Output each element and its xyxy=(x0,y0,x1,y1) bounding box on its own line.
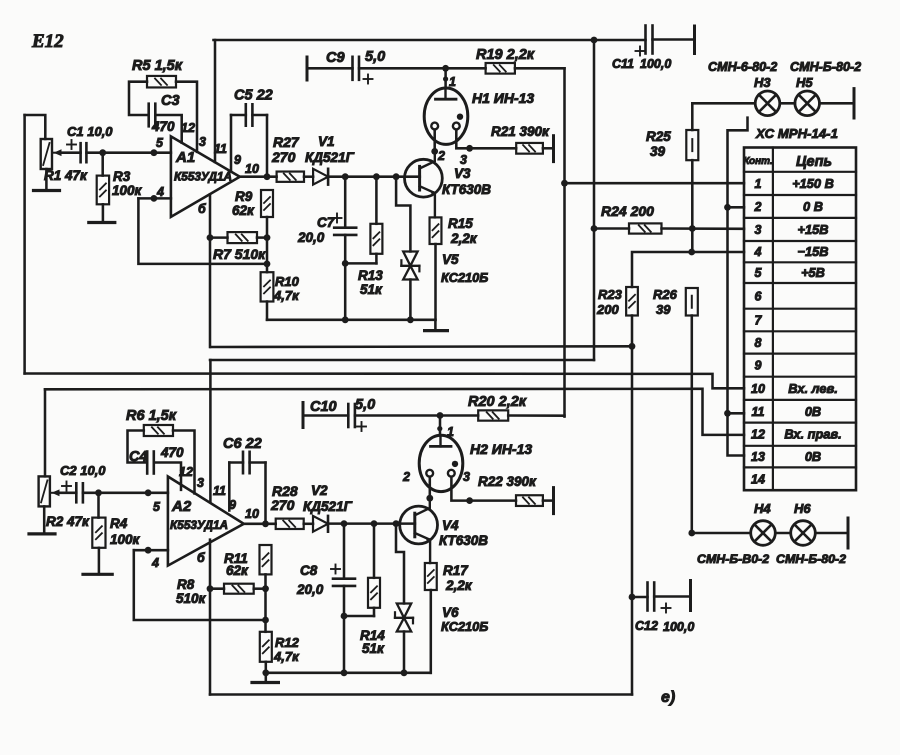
svg-text:470: 470 xyxy=(151,119,175,134)
svg-text:14: 14 xyxy=(751,472,765,486)
svg-text:20,0: 20,0 xyxy=(297,230,325,245)
svg-text:9: 9 xyxy=(755,359,762,373)
svg-text:100,0: 100,0 xyxy=(663,620,694,634)
svg-text:3: 3 xyxy=(460,153,467,167)
svg-text:СМН-Б-80-2: СМН-Б-80-2 xyxy=(776,552,846,566)
svg-text:V4: V4 xyxy=(442,518,459,533)
svg-text:R25: R25 xyxy=(646,129,671,144)
svg-text:С4: С4 xyxy=(129,449,148,465)
svg-text:V1: V1 xyxy=(318,134,335,149)
svg-text:С8: С8 xyxy=(300,563,318,578)
svg-text:К553УД1А: К553УД1А xyxy=(170,518,228,532)
svg-text:б: б xyxy=(197,551,206,565)
svg-text:R4: R4 xyxy=(110,516,128,531)
svg-text:62к: 62к xyxy=(232,203,255,218)
svg-text:51к: 51к xyxy=(362,641,385,656)
svg-text:0 В: 0 В xyxy=(803,199,823,214)
svg-text:R8: R8 xyxy=(177,577,195,592)
svg-text:R1 47к: R1 47к xyxy=(44,168,88,183)
svg-text:2: 2 xyxy=(437,149,445,163)
svg-text:Н1 ИН-13: Н1 ИН-13 xyxy=(472,90,534,106)
svg-text:R10: R10 xyxy=(275,274,300,289)
svg-text:Н2 ИН-13: Н2 ИН-13 xyxy=(470,441,532,457)
svg-text:Вх. прав.: Вх. прав. xyxy=(784,427,841,442)
svg-text:Н6: Н6 xyxy=(794,501,811,516)
svg-text:0В: 0В xyxy=(805,404,821,419)
svg-text:3: 3 xyxy=(197,476,204,490)
svg-text:С5 22: С5 22 xyxy=(234,88,273,104)
svg-text:4,7к: 4,7к xyxy=(273,288,300,303)
svg-text:100к: 100к xyxy=(112,183,143,198)
svg-text:100к: 100к xyxy=(110,532,141,547)
svg-text:Н3: Н3 xyxy=(754,75,771,90)
svg-text:4: 4 xyxy=(151,556,159,570)
svg-text:R5 1,5к: R5 1,5к xyxy=(132,58,183,74)
svg-text:7: 7 xyxy=(755,314,763,328)
svg-text:е): е) xyxy=(661,689,675,706)
svg-text:КС210Б: КС210Б xyxy=(441,270,488,285)
svg-text:R12: R12 xyxy=(275,635,300,650)
svg-text:1: 1 xyxy=(755,177,762,191)
svg-text:R15: R15 xyxy=(448,216,473,231)
svg-text:R13: R13 xyxy=(358,268,383,283)
svg-text:R27: R27 xyxy=(273,134,300,150)
svg-text:V6: V6 xyxy=(442,605,459,620)
svg-text:10: 10 xyxy=(751,382,765,396)
svg-text:510к: 510к xyxy=(176,591,207,606)
svg-text:Н4: Н4 xyxy=(754,501,771,516)
svg-text:б: б xyxy=(198,202,207,216)
svg-text:12: 12 xyxy=(181,121,195,135)
svg-text:3: 3 xyxy=(463,470,470,484)
svg-text:СМН-Б-В0-2: СМН-Б-В0-2 xyxy=(697,552,769,566)
svg-text:5: 5 xyxy=(156,136,164,150)
svg-text:С6 22: С6 22 xyxy=(223,436,262,452)
svg-text:R2 47к: R2 47к xyxy=(46,514,90,529)
svg-text:4,7к: 4,7к xyxy=(273,649,300,664)
svg-text:R6 1,5к: R6 1,5к xyxy=(126,408,177,424)
svg-text:Вх. лев.: Вх. лев. xyxy=(788,381,838,396)
svg-text:5: 5 xyxy=(755,266,763,280)
svg-text:R3: R3 xyxy=(113,169,131,184)
svg-text:9: 9 xyxy=(229,498,236,512)
svg-text:Конт.: Конт. xyxy=(743,156,772,167)
svg-text:КД521Г: КД521Г xyxy=(303,499,353,514)
svg-text:2: 2 xyxy=(754,200,762,214)
svg-text:С9: С9 xyxy=(326,50,345,66)
svg-text:R22 390к: R22 390к xyxy=(478,474,537,489)
svg-text:11: 11 xyxy=(752,405,765,419)
svg-text:С1 10,0: С1 10,0 xyxy=(67,124,113,139)
svg-text:СМН-Б-80-2: СМН-Б-80-2 xyxy=(790,60,861,74)
svg-text:4: 4 xyxy=(156,185,164,199)
svg-text:10: 10 xyxy=(245,162,259,176)
svg-text:4: 4 xyxy=(754,245,762,259)
svg-text:КС210Б: КС210Б xyxy=(441,619,488,634)
svg-text:R17: R17 xyxy=(443,563,469,578)
svg-text:2,2к: 2,2к xyxy=(450,231,478,246)
svg-text:8: 8 xyxy=(755,336,762,350)
svg-text:1: 1 xyxy=(447,425,454,439)
svg-text:1: 1 xyxy=(449,75,456,89)
svg-text:270: 270 xyxy=(270,497,295,513)
svg-text:С2 10,0: С2 10,0 xyxy=(60,463,106,478)
svg-text:13: 13 xyxy=(751,450,765,464)
svg-text:С7: С7 xyxy=(317,215,336,230)
svg-text:11: 11 xyxy=(213,484,226,498)
svg-text:СМН-6-80-2: СМН-6-80-2 xyxy=(708,60,777,74)
svg-text:R21 390к: R21 390к xyxy=(491,124,550,139)
svg-text:ХС МРН-14-1: ХС МРН-14-1 xyxy=(755,126,838,141)
svg-text:11: 11 xyxy=(214,142,227,156)
svg-text:200: 200 xyxy=(596,302,619,317)
svg-text:С10: С10 xyxy=(310,399,337,415)
svg-text:Цепь: Цепь xyxy=(796,154,832,170)
svg-text:+5В: +5В xyxy=(801,265,825,280)
svg-text:5: 5 xyxy=(153,500,161,514)
svg-text:R19 2,2к: R19 2,2к xyxy=(476,47,535,63)
svg-text:12: 12 xyxy=(179,465,193,479)
svg-text:62к: 62к xyxy=(226,563,249,578)
svg-text:3: 3 xyxy=(199,135,206,149)
svg-text:R23: R23 xyxy=(598,287,623,302)
svg-text:39: 39 xyxy=(650,144,666,159)
svg-text:КД521Г: КД521Г xyxy=(305,150,355,165)
svg-text:КТ630В: КТ630В xyxy=(439,533,488,548)
svg-text:V5: V5 xyxy=(442,252,459,267)
svg-text:2: 2 xyxy=(402,470,410,484)
svg-text:R20 2,2к: R20 2,2к xyxy=(468,394,527,410)
svg-text:R7 510к: R7 510к xyxy=(213,246,266,262)
svg-text:R9: R9 xyxy=(235,189,253,204)
svg-text:V2: V2 xyxy=(311,483,328,498)
svg-text:А1: А1 xyxy=(175,149,195,166)
svg-text:К553УД1А: К553УД1А xyxy=(174,170,232,184)
svg-text:3: 3 xyxy=(755,223,762,237)
svg-text:10: 10 xyxy=(245,507,259,521)
svg-text:С12: С12 xyxy=(635,619,658,633)
svg-text:R24 200: R24 200 xyxy=(601,203,654,219)
svg-text:Н5: Н5 xyxy=(796,75,813,90)
svg-text:0В: 0В xyxy=(805,449,821,464)
svg-text:R26: R26 xyxy=(653,287,678,302)
svg-text:КТ630В: КТ630В xyxy=(442,182,491,197)
svg-text:Е12: Е12 xyxy=(31,31,64,52)
svg-text:20,0: 20,0 xyxy=(296,582,324,597)
svg-text:2,2к: 2,2к xyxy=(445,578,473,593)
svg-text:5,0: 5,0 xyxy=(355,397,375,413)
svg-text:6: 6 xyxy=(755,289,763,303)
svg-text:+150 В: +150 В xyxy=(792,176,834,191)
svg-text:V3: V3 xyxy=(454,166,471,181)
svg-text:12: 12 xyxy=(751,428,765,442)
svg-text:С3: С3 xyxy=(161,93,180,109)
svg-text:С11: С11 xyxy=(612,57,634,71)
svg-text:470: 470 xyxy=(160,445,184,460)
svg-text:−15В: −15В xyxy=(798,244,829,259)
svg-text:51к: 51к xyxy=(360,282,383,297)
svg-text:39: 39 xyxy=(656,302,671,317)
svg-text:5,0: 5,0 xyxy=(365,49,385,65)
svg-text:100,0: 100,0 xyxy=(640,57,671,71)
svg-text:А2: А2 xyxy=(171,498,192,515)
svg-text:270: 270 xyxy=(271,149,296,165)
svg-text:9: 9 xyxy=(234,153,241,167)
svg-text:+15В: +15В xyxy=(798,222,829,237)
